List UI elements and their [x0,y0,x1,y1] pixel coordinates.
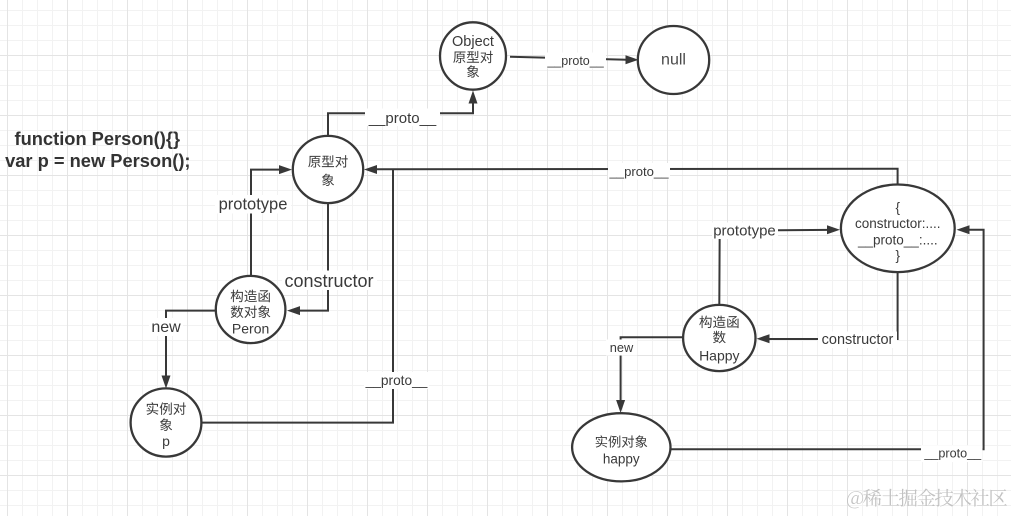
svg-text:__proto__:....: __proto__:.... [857,233,938,248]
node null circle [638,26,709,94]
wire __proto__ from Object circle right to null circle [510,57,627,60]
svg-text:{: { [896,200,901,215]
arrowhead into null circle left [626,55,639,64]
node p instance circle [131,388,202,456]
svg-text:null: null [661,52,686,69]
svg-text:__proto__: __proto__ [609,164,670,179]
label new (right) [606,340,637,356]
svg-text:__proto__: __proto__ [923,447,982,461]
svg-text:prototype: prototype [219,196,288,214]
label constructor (left) [282,271,377,291]
svg-text:var p = new Person();: var p = new Person(); [5,150,190,171]
svg-text:happy: happy [603,451,640,466]
arrowhead into object-literal ellipse left edge [827,225,840,234]
label __proto__ (middle) [364,372,429,389]
arrowhead into Peron circle right edge [287,306,300,315]
wire new-right from Happy circle left then down into happy ellipse top [621,337,684,401]
wire __proto__ from Object-prototype circle top up and right into Object circle bottom [328,101,473,137]
svg-text:constructor: constructor [822,332,894,348]
svg-text:constructor: constructor [284,271,373,291]
svg-text:Peron: Peron [232,321,269,337]
svg-text:__proto__: __proto__ [546,54,604,68]
watermark juejin community [847,489,1007,509]
node prototype-object circle [293,136,363,203]
wire __proto__ from happy ellipse right, up into object-literal ellipse right edge [671,230,984,450]
arrowhead into prototype circle right edge [364,165,377,174]
node Peron constructor circle [216,276,286,343]
node Object prototype circle [440,22,506,89]
arrowhead into happy ellipse top [616,400,625,413]
svg-text:}: } [896,248,901,263]
svg-text:__proto__: __proto__ [365,373,428,388]
label __proto__ (upper) [365,109,440,127]
arrowhead into p circle top [162,376,171,389]
svg-text:new: new [610,340,634,355]
arrowhead into object-literal ellipse right edge [957,225,970,234]
svg-text:__proto__: __proto__ [368,110,437,127]
node Happy constructor circle [683,305,755,371]
node happy instance ellipse [572,413,670,481]
svg-text:Object: Object [452,34,494,50]
svg-text:function Person(){}: function Person(){} [15,128,181,149]
wire __proto__ from p circle right, up to join long horizontal [202,169,394,422]
label __proto__ (long horizontal) [608,163,670,180]
wire prototype-left from Peron circle top up then right into prototype circle left [251,170,280,277]
label prototype (right) [712,223,778,240]
svg-text:Happy: Happy [699,347,739,363]
label __proto__ (bottom right) [921,445,983,462]
svg-text:constructor:....: constructor:.... [855,216,941,231]
wire constructor-right from object-literal ellipse bottom down then left into Happy circle [768,272,898,339]
label prototype (left) [215,195,291,214]
svg-text:prototype: prototype [713,223,776,240]
arrowhead into Object circle bottom [469,91,478,104]
arrowhead into prototype circle left edge [279,165,292,174]
node object-literal ellipse [841,185,955,273]
label new (left) [149,318,183,336]
label __proto__ (Object to null) [545,53,606,69]
label constructor (right) [818,332,897,349]
svg-text:p: p [162,433,170,449]
wire constructor-left from prototype circle bottom down then left into Peron circle [299,203,329,311]
wire new-left from Peron circle left then down into p circle top [166,311,216,377]
wire prototype-right from Happy circle top up then right into object-literal ellipse left [719,230,828,306]
svg-text:new: new [151,319,181,336]
arrowhead into Happy circle right edge [757,334,770,343]
wire long __proto__ from object-literal ellipse top, left into prototype circle right edge [376,169,898,185]
